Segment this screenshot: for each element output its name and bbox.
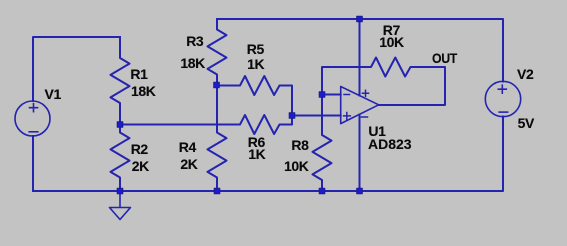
label OUT net — [432, 51, 457, 65]
label V1 — [45, 87, 61, 101]
resistor R3 — [208, 19, 227, 125]
label R2 value 2K — [132, 159, 149, 173]
wire: top rail from R3 top to V2 top — [217, 19, 503, 82]
wire: V1 bottom to rail — [32, 136, 34, 191]
label R5 — [247, 42, 264, 56]
node: ground rail at R4 — [214, 188, 220, 194]
node: ground rail at R8 — [319, 188, 325, 194]
voltage source V1 — [15, 101, 50, 136]
label R8 value 10K — [284, 159, 308, 173]
label R6 — [248, 135, 265, 149]
resistor R4 — [208, 125, 227, 192]
label U1 part AD823 — [368, 137, 412, 151]
ground — [110, 191, 131, 220]
resistor R8 — [313, 95, 332, 192]
resistor R2 — [111, 125, 130, 192]
wire: opamp V- supply — [359, 115, 361, 192]
label R7 value 10K — [379, 35, 403, 49]
resistor R6 with wire from divider node — [120, 115, 292, 134]
resistor R7 with feedback and output wires — [322, 58, 445, 106]
node: ground rail at opamp V- — [357, 188, 363, 194]
resistor R1 — [111, 37, 130, 125]
label R2 — [131, 142, 148, 156]
label R1 value 18K — [131, 84, 155, 98]
wire: V1 top to R1 top — [33, 37, 120, 101]
wire: noninverting input — [292, 115, 341, 117]
label R7 — [383, 23, 400, 37]
op-amp U1 — [341, 87, 379, 124]
label R5 value 1K — [247, 57, 264, 71]
label V2 value 5V — [518, 116, 534, 130]
label R8 — [291, 138, 308, 152]
label R4 value 2K — [180, 157, 197, 171]
wire: inverting input — [322, 94, 341, 96]
wire: bottom ground rail from V1 to V2 — [33, 117, 503, 192]
node: R5/R6 join — [289, 113, 295, 119]
label R1 — [130, 67, 147, 81]
label V2 — [517, 67, 533, 81]
node: R3/R5 node A — [214, 82, 220, 88]
label R3 — [186, 34, 203, 48]
label R4 — [179, 140, 196, 154]
node: ground rail at R2 — [117, 188, 123, 194]
node: inverting input junction — [319, 92, 325, 98]
voltage source V2 — [485, 81, 520, 116]
resistor R5 with wires from node A to +input branch — [216, 76, 292, 116]
wire: opamp V+ supply — [359, 19, 361, 96]
node: R1/R2 divider — [117, 122, 123, 128]
label R6 value 1K — [248, 147, 265, 161]
label R3 value 18K — [180, 56, 204, 70]
node: top rail junction — [357, 16, 363, 22]
label U1 — [368, 124, 385, 138]
